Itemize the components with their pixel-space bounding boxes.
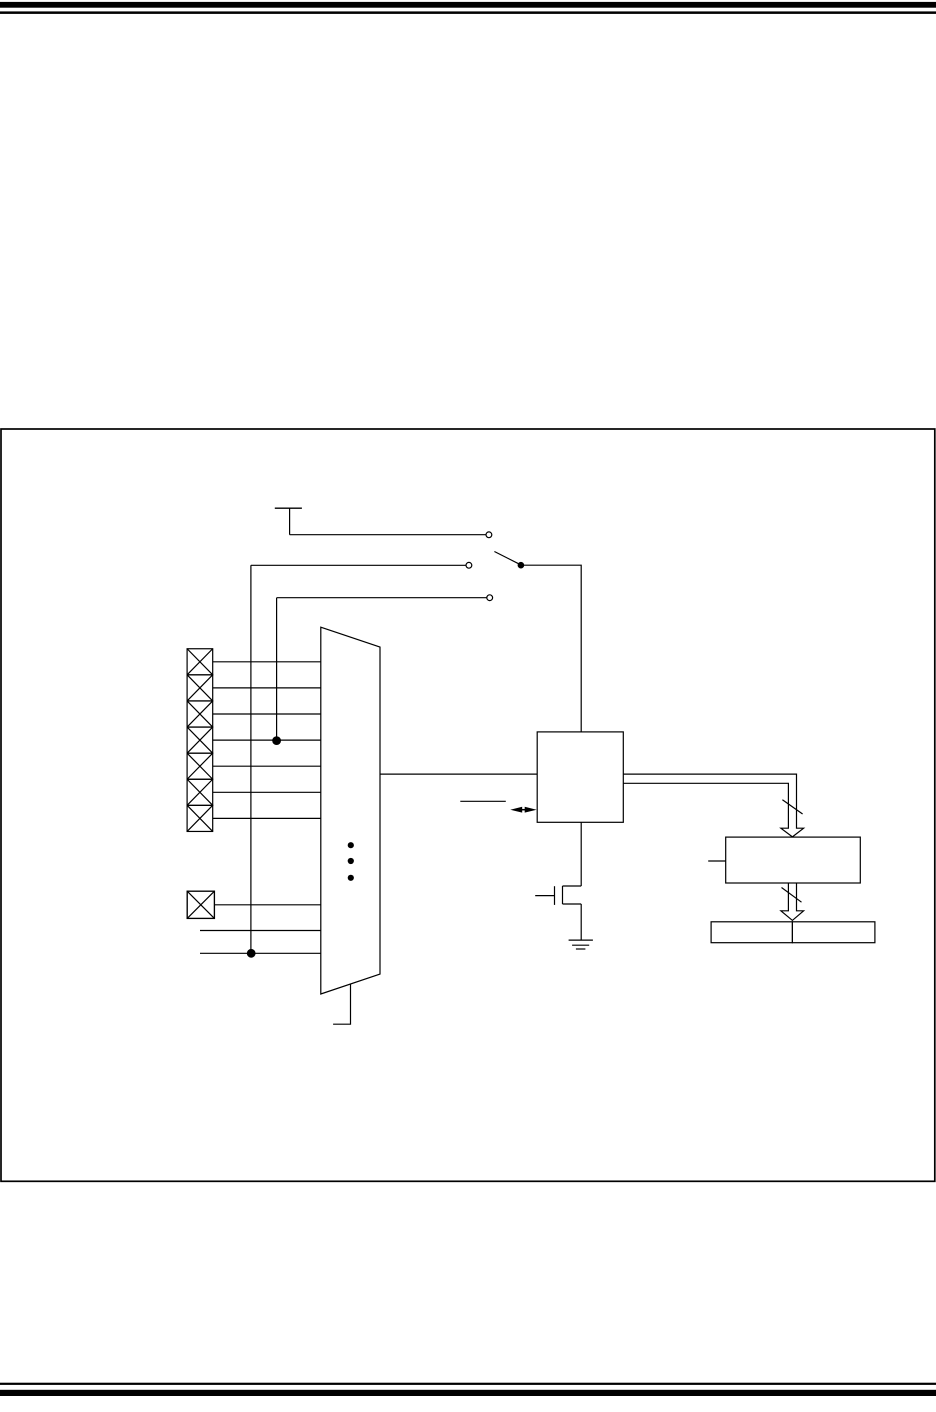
wire AN4 to mux [213,765,321,767]
wire AN6 to mux [213,817,321,819]
wire AN2 to mux [213,713,321,715]
wire reserved input to mux [200,930,321,932]
pin AN3 [187,727,213,753]
wire switch pole to sample-hold block [521,565,581,732]
transistor Q1 discharge MOSFET [535,822,581,940]
bus arrow ADC to result registers [781,883,804,920]
pin AN5 [187,779,213,805]
wire AN5 to mux [213,791,321,793]
wire AN1 to mux [213,687,321,689]
bus width slash 1 [782,800,802,814]
wire last pin to mux [214,904,320,906]
analog input mux [321,627,380,994]
pin AN0 [187,649,213,675]
pin AN1 [187,675,213,701]
switch throw contact 3 [487,595,493,601]
wire to switch throw 3 [277,598,487,741]
wire AN0 to mux [213,661,321,663]
switch pole dot [518,562,525,569]
control stub into ADC block [708,860,726,862]
wire AN3 to mux [213,739,321,741]
pin AN2 [187,701,213,727]
ADC block [726,837,861,883]
header/footer page rules (decorative) [0,2,936,8]
ground [569,940,593,949]
result register high byte [711,922,792,943]
switch throw contact 2 [466,562,472,568]
bus width slash 2 [782,888,802,903]
junction dot on AN3 wire [272,736,281,745]
wire switch throw 2 feed to mux [200,952,321,954]
sampling switch label line [460,800,506,802]
switch blade [494,552,519,565]
junction dot on bottom feed wire [247,949,256,958]
wire to switch throw 2 [251,565,466,953]
bus arrow sample-hold to ADC block [623,774,803,837]
sample-and-hold block [537,732,623,822]
node VREF T-bar [275,508,302,535]
switch throw contact 1 [486,532,492,538]
bidirectional arrow into sample-hold [510,807,536,813]
pin AN6 [187,805,213,831]
pin ANx last channel [187,891,214,918]
result register low byte [792,922,875,943]
mux channel-select stub [333,984,350,1024]
mux ellipsis dots [348,842,354,881]
pin AN4 [187,753,213,779]
wire VREF bar to switch throw 1 [290,534,486,536]
wire mux output to sample-hold [380,773,537,775]
